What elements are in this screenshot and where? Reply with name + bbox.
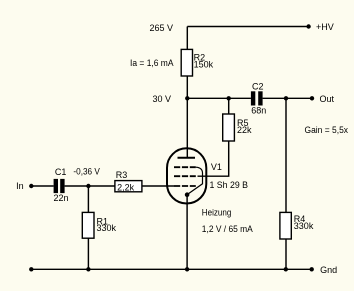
svg-text:330k: 330k [97, 223, 117, 233]
node filament/ground junction dot [185, 267, 189, 271]
svg-text:In: In [16, 181, 24, 191]
capacitor C1 [54, 179, 58, 193]
svg-text:C1: C1 [55, 167, 67, 177]
svg-text:-0,36 V: -0,36 V [73, 167, 100, 177]
resistor R3 [115, 181, 142, 192]
node R5 junction dot [227, 96, 231, 100]
grid g3 (suppressor) dashes [174, 166, 196, 168]
svg-text:Ia = 1,6 mA: Ia = 1,6 mA [130, 58, 174, 68]
filament (cathode) dot [185, 192, 190, 197]
node A (grid node, -0.36 V) dot [86, 184, 90, 188]
wire input line (In to C1, C1 to node A, node A to R3, R3 to grid g1) [31, 185, 174, 187]
svg-text:22k: 22k [237, 125, 252, 135]
node Gnd terminal dot [310, 267, 314, 271]
node C2/R4 junction dot [284, 96, 288, 100]
svg-text:Heizung: Heizung [202, 208, 232, 218]
wire R1 branch (node A down through R1 to ground rail) [87, 186, 89, 269]
wire anode lead (30V node down into tube to plate) [186, 98, 188, 158]
wire filament lead (cathode dot down to ground rail) [186, 195, 188, 270]
node In terminal dot [29, 184, 33, 188]
node R4/ground junction dot [284, 267, 288, 271]
capacitor C2 [251, 91, 255, 105]
op-amp? no: vacuum tube V1 envelope [167, 148, 206, 203]
grid g1 (control) dashes [174, 185, 196, 187]
wire top rail (+HV) [187, 26, 308, 28]
svg-text:+HV: +HV [316, 22, 334, 32]
resistor R2 [181, 49, 192, 76]
svg-text:C2: C2 [252, 82, 264, 92]
svg-text:Gnd: Gnd [320, 265, 337, 275]
node +HV terminal dot [306, 24, 310, 28]
resistor R5 [223, 114, 235, 141]
internal tie g3 to filament [187, 167, 202, 194]
svg-text:22n: 22n [54, 193, 69, 203]
svg-text:1 Sh 29 B: 1 Sh 29 B [210, 180, 249, 190]
wire R2 branch (vertical from top rail through R2 to 30V node) [186, 27, 188, 99]
svg-text:68n: 68n [251, 106, 266, 116]
node R1/ground junction dot [86, 267, 90, 271]
wire R4 branch (output rail down through R4 to ground rail) [285, 98, 287, 269]
svg-text:30 V: 30 V [153, 94, 172, 104]
svg-text:150k: 150k [194, 59, 214, 69]
wire 30V / output rail [187, 97, 312, 99]
anode plate of V1 [178, 157, 196, 159]
svg-text:Gain = 5,5x: Gain = 5,5x [305, 125, 349, 135]
svg-text:330k: 330k [294, 221, 314, 231]
wire ground rail [31, 268, 311, 270]
svg-text:2,2k: 2,2k [117, 182, 135, 192]
svg-text:V1: V1 [211, 162, 222, 172]
svg-text:R3: R3 [116, 170, 128, 180]
node ground left end dot [29, 267, 33, 271]
svg-text:1,2 V / 65 mA: 1,2 V / 65 mA [202, 224, 253, 234]
resistor R1 [82, 212, 94, 238]
grid g2 (screen) dashes [174, 175, 196, 177]
svg-text:265 V: 265 V [150, 23, 174, 33]
node anode junction dot [185, 96, 189, 100]
wire R5 branch (from 30V rail down through R5, then left to tube g2) [198, 98, 229, 176]
node Out terminal dot [310, 96, 314, 100]
svg-text:Out: Out [320, 94, 335, 104]
resistor R4 [280, 212, 291, 239]
